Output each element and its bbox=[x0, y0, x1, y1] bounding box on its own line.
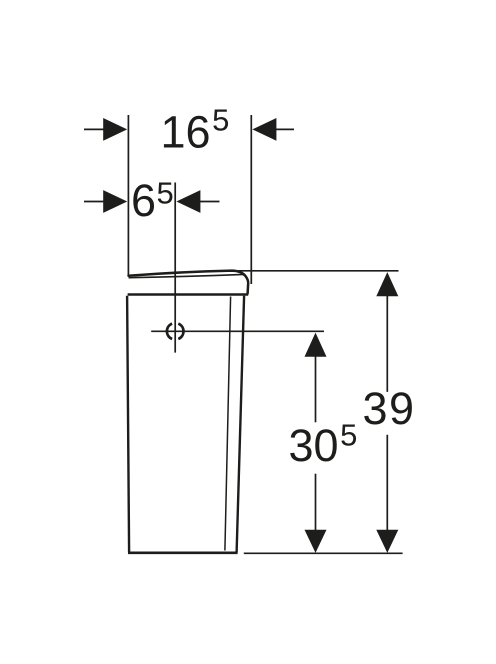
top reference line (lid top to 39 dim) bbox=[226, 270, 398, 272]
dim 16.5 right arrowhead bbox=[252, 118, 276, 141]
hole symbol circle (gaps top and bottom) bbox=[167, 324, 184, 339]
dim 30.5 line upper segment bbox=[315, 356, 317, 422]
dim 6.5 right arrowhead bbox=[176, 190, 200, 213]
dim 16.5 left arrowhead bbox=[103, 118, 127, 141]
dim 39 down arrowhead bbox=[376, 530, 398, 553]
dim 39 line upper segment bbox=[386, 296, 388, 392]
dim 39 line lower segment bbox=[386, 435, 388, 531]
dim 30.5 down arrowhead bbox=[305, 530, 327, 553]
cistern lid inner edge bbox=[129, 274, 245, 277]
extension line right (x=251.3) bbox=[250, 115, 252, 284]
cistern bottom line bbox=[128, 551, 238, 554]
bottom reference line (cistern base to dims) bbox=[244, 552, 403, 554]
dim 39 up arrowhead bbox=[376, 272, 398, 296]
cistern lid bottom line bbox=[128, 293, 249, 295]
dim 16.5 right arrow tail bbox=[275, 128, 294, 130]
cistern lid outline bbox=[129, 271, 249, 294]
dim 30.5 line lower segment bbox=[315, 474, 317, 531]
dim 6.5 left arrow tail bbox=[84, 201, 105, 203]
extension line left (x=128.4) bbox=[127, 115, 129, 276]
svg-text:39: 39 bbox=[363, 383, 416, 434]
dim 6.5 right arrow tail bbox=[200, 201, 220, 203]
hole horizontal reference line to 30.5 dim bbox=[151, 330, 324, 332]
dim 30.5 up arrowhead bbox=[305, 333, 327, 357]
centerline through hole (x=175.2) bbox=[174, 183, 176, 353]
cistern body inner right line bbox=[225, 297, 231, 551]
dim 16.5 left arrow tail bbox=[84, 128, 105, 130]
dim 6.5 left arrowhead bbox=[103, 190, 127, 213]
cistern body left edge bbox=[127, 296, 129, 553]
cistern body right edge bbox=[237, 296, 245, 553]
